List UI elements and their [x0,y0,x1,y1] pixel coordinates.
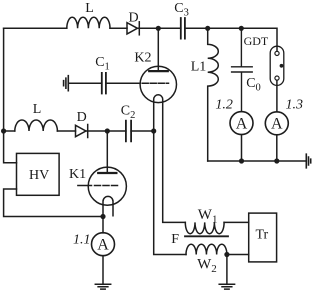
ammeter 1.3 [265,112,288,135]
node bus 1.2 [239,158,244,163]
svg-text:W1: W1 [198,207,218,226]
wire HV lower stub to bottom rail [4,189,103,217]
svg-text:GDT: GDT [244,34,269,48]
capacitor C0 [232,28,253,111]
wire D to C3 [137,27,180,29]
svg-text:HV: HV [29,168,49,183]
wire C2 to K2 cathode node [131,130,154,132]
node K2 anode junction [156,26,161,31]
ground (left, by C1) [64,76,69,91]
svg-text:C1: C1 [95,55,110,73]
K1 anode plate [98,172,116,174]
wire row2 left [4,130,15,132]
svg-text:W2: W2 [197,256,217,275]
bus wire bottom of meters [208,160,307,162]
svg-text:F: F [171,232,179,247]
HV box [17,153,60,195]
svg-text:D: D [77,110,87,125]
node row2 left junction [1,128,6,133]
capacitor C1 [102,73,106,94]
triode K1 envelope [88,167,126,205]
svg-text:A: A [271,116,283,133]
capacitor C3 [181,18,185,39]
node bus 1.3 [274,158,279,163]
svg-text:1.3: 1.3 [286,98,304,113]
svg-text:A: A [97,237,109,254]
node C0 junction [239,26,244,31]
core F [185,235,228,237]
wire GDT to ammeter 1.3 [276,80,278,112]
inductor L top [67,17,110,28]
svg-text:C3: C3 [174,1,189,19]
svg-text:L1: L1 [191,60,207,75]
ground (below 1.1) [95,284,110,289]
wire W2 to Tr [227,254,249,256]
node C2 right junction [151,128,156,133]
node W2 right junction [224,252,229,257]
svg-text:K1: K1 [69,167,86,182]
wire top-left horizontal [4,27,67,29]
winding W2 [186,244,227,254]
left rail [4,28,17,162]
winding W1 [185,222,224,233]
wire ammeter 1.2 to bus [241,135,243,161]
ground (below W2) [219,284,234,289]
Tr box [249,213,277,262]
wire W1 to Tr [224,221,249,223]
gas discharge tube GDT [270,46,284,85]
GDT middle electrode dot [280,64,284,68]
K1 grid stub [78,185,92,187]
wire C1 to K2 grid [106,82,140,84]
wire L to D row2 [57,130,75,132]
node L1 junction [205,26,210,31]
inductor L1 [208,28,219,161]
svg-text:C0: C0 [246,76,261,94]
triode K2 envelope [140,66,176,102]
inductor L row2 [15,120,58,131]
GDT top electrode [276,46,278,51]
svg-text:L: L [33,102,42,117]
K1 anode lead [106,131,108,173]
node K1 anode junction [105,128,110,133]
svg-text:1.1: 1.1 [73,233,91,248]
svg-text:C2: C2 [121,103,136,121]
wire ground to C1 [68,82,102,84]
capacitor C2 [126,121,131,142]
K2 anode plate [149,70,168,72]
GDT bottom electrode [275,76,279,80]
K1 cathode [103,196,113,216]
K1 grid (dashed) [95,185,120,187]
svg-text:A: A [236,116,248,133]
svg-text:Tr: Tr [256,228,269,243]
ground (right) [306,154,310,168]
K2 grid (dashed) [142,82,168,84]
wire C2 node down to W2 [154,131,186,255]
svg-text:D: D [129,11,139,26]
K2 cathode [154,95,186,223]
diode D row2 [76,125,86,136]
ammeter 1.2 [230,112,253,135]
wire W2 node to ground [226,255,228,285]
diode D top [127,23,137,34]
wire ammeter 1.1 to ground [102,256,104,285]
svg-text:1.2: 1.2 [215,98,233,113]
wire ammeter 1.3 to bus [276,135,278,161]
svg-text:L: L [85,1,94,16]
K2 anode lead [157,28,159,71]
wire node to ammeter 1.1 [102,217,104,233]
wire D to C2 [86,130,126,132]
wire C3 to top-right corner [185,28,277,46]
wire L to D [110,27,127,29]
node K1 cathode junction [100,214,105,219]
ammeter 1.1 [92,233,115,256]
svg-text:K2: K2 [134,50,151,65]
